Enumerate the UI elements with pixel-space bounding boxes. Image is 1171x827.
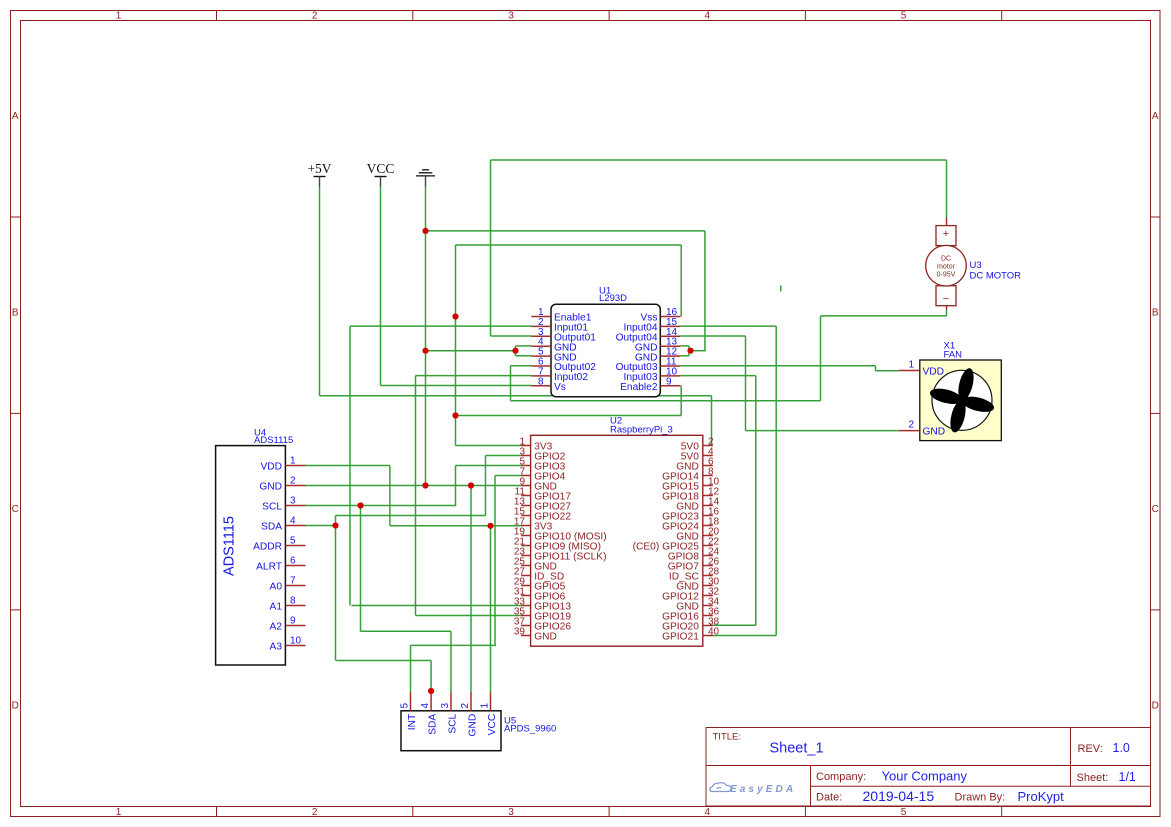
svg-text:U3: U3 [970,260,982,271]
svg-text:A: A [1152,111,1159,122]
svg-text:8: 8 [538,376,544,387]
svg-text:INT: INT [407,714,418,730]
svg-text:A: A [12,111,19,122]
svg-text:2: 2 [312,807,318,818]
svg-text:3: 3 [508,11,514,22]
svg-text:C: C [1152,504,1159,515]
svg-text:ADDR: ADDR [253,542,282,553]
svg-text:VDD: VDD [260,462,282,473]
svg-text:EasyEDA: EasyEDA [730,784,796,795]
svg-text:2: 2 [908,420,914,431]
svg-text:SCL: SCL [448,713,459,733]
svg-text:1/1: 1/1 [1119,770,1136,784]
svg-text:Vs: Vs [554,382,566,393]
svg-text:3: 3 [440,703,451,709]
svg-text:Your Company: Your Company [882,769,968,784]
svg-text:GND: GND [259,482,282,493]
svg-text:VCC: VCC [367,161,395,176]
svg-text:B: B [1152,308,1159,319]
svg-text:Enable2: Enable2 [620,382,658,393]
svg-text:Sheet:: Sheet: [1077,772,1109,784]
svg-text:D: D [12,701,19,712]
svg-text:4: 4 [705,11,711,22]
svg-text:39: 39 [514,627,526,638]
svg-text:Drawn By:: Drawn By: [955,792,1006,804]
svg-text:SDA: SDA [428,714,439,735]
svg-text:9: 9 [666,376,672,387]
svg-text:A0: A0 [270,582,283,593]
svg-text:A3: A3 [270,642,283,653]
svg-text:Date:: Date: [816,792,842,804]
svg-text:Sheet_1: Sheet_1 [770,741,824,757]
svg-text:3: 3 [290,496,296,507]
svg-text:GND: GND [923,427,946,438]
svg-text:9: 9 [290,616,296,627]
svg-text:A2: A2 [270,622,283,633]
svg-text:ProKypt: ProKypt [1018,789,1065,804]
svg-text:ADS1115: ADS1115 [222,516,238,576]
svg-text:1: 1 [480,703,491,709]
svg-text:4: 4 [420,703,431,709]
svg-text:5: 5 [290,536,296,547]
svg-text:−: − [943,293,949,305]
svg-text:2: 2 [312,11,318,22]
svg-text:6: 6 [290,556,296,567]
svg-text:C: C [12,504,19,515]
svg-text:RaspberryPi_3: RaspberryPi_3 [610,425,673,436]
svg-text:D: D [1152,701,1159,712]
svg-text:L293D: L293D [599,293,627,304]
svg-text:1.0: 1.0 [1113,741,1130,755]
svg-text:SDA: SDA [261,522,282,533]
svg-text:2019-04-15: 2019-04-15 [863,788,935,804]
svg-text:3: 3 [508,807,514,818]
svg-text:2: 2 [460,703,471,709]
svg-text:5: 5 [901,807,907,818]
svg-text:0-95V: 0-95V [937,272,956,279]
svg-text:A1: A1 [270,602,283,613]
svg-text:1: 1 [290,456,296,467]
svg-text:+5V: +5V [307,161,331,176]
svg-text:DC MOTOR: DC MOTOR [970,271,1022,282]
svg-text:DC: DC [941,256,951,263]
svg-text:motor: motor [937,264,956,271]
svg-text:1: 1 [116,807,122,818]
svg-text:GPIO21: GPIO21 [662,631,699,642]
svg-text:10: 10 [290,636,302,647]
svg-text:GND: GND [534,631,557,642]
svg-text:5: 5 [400,703,411,709]
svg-text:7: 7 [290,576,296,587]
svg-text:2: 2 [290,476,296,487]
svg-text:1: 1 [116,11,122,22]
svg-text:VDD: VDD [923,367,945,378]
svg-text:APDS_9960: APDS_9960 [504,724,556,735]
svg-text:+: + [943,228,949,240]
svg-text:SCL: SCL [262,502,282,513]
svg-text:4: 4 [705,807,711,818]
svg-text:4: 4 [290,516,296,527]
svg-text:FAN: FAN [944,350,963,361]
svg-text:GND: GND [468,714,479,737]
svg-text:VCC: VCC [487,714,498,736]
svg-text:TITLE:: TITLE: [713,732,742,743]
svg-text:B: B [12,308,19,319]
svg-text:1: 1 [908,360,914,371]
svg-text:40: 40 [708,627,720,638]
svg-text:ALRT: ALRT [256,562,282,573]
svg-text:REV:: REV: [1078,743,1103,755]
svg-text:ADS1115: ADS1115 [254,435,293,446]
svg-text:Company:: Company: [816,771,866,783]
svg-text:5: 5 [901,11,907,22]
svg-text:8: 8 [290,596,296,607]
